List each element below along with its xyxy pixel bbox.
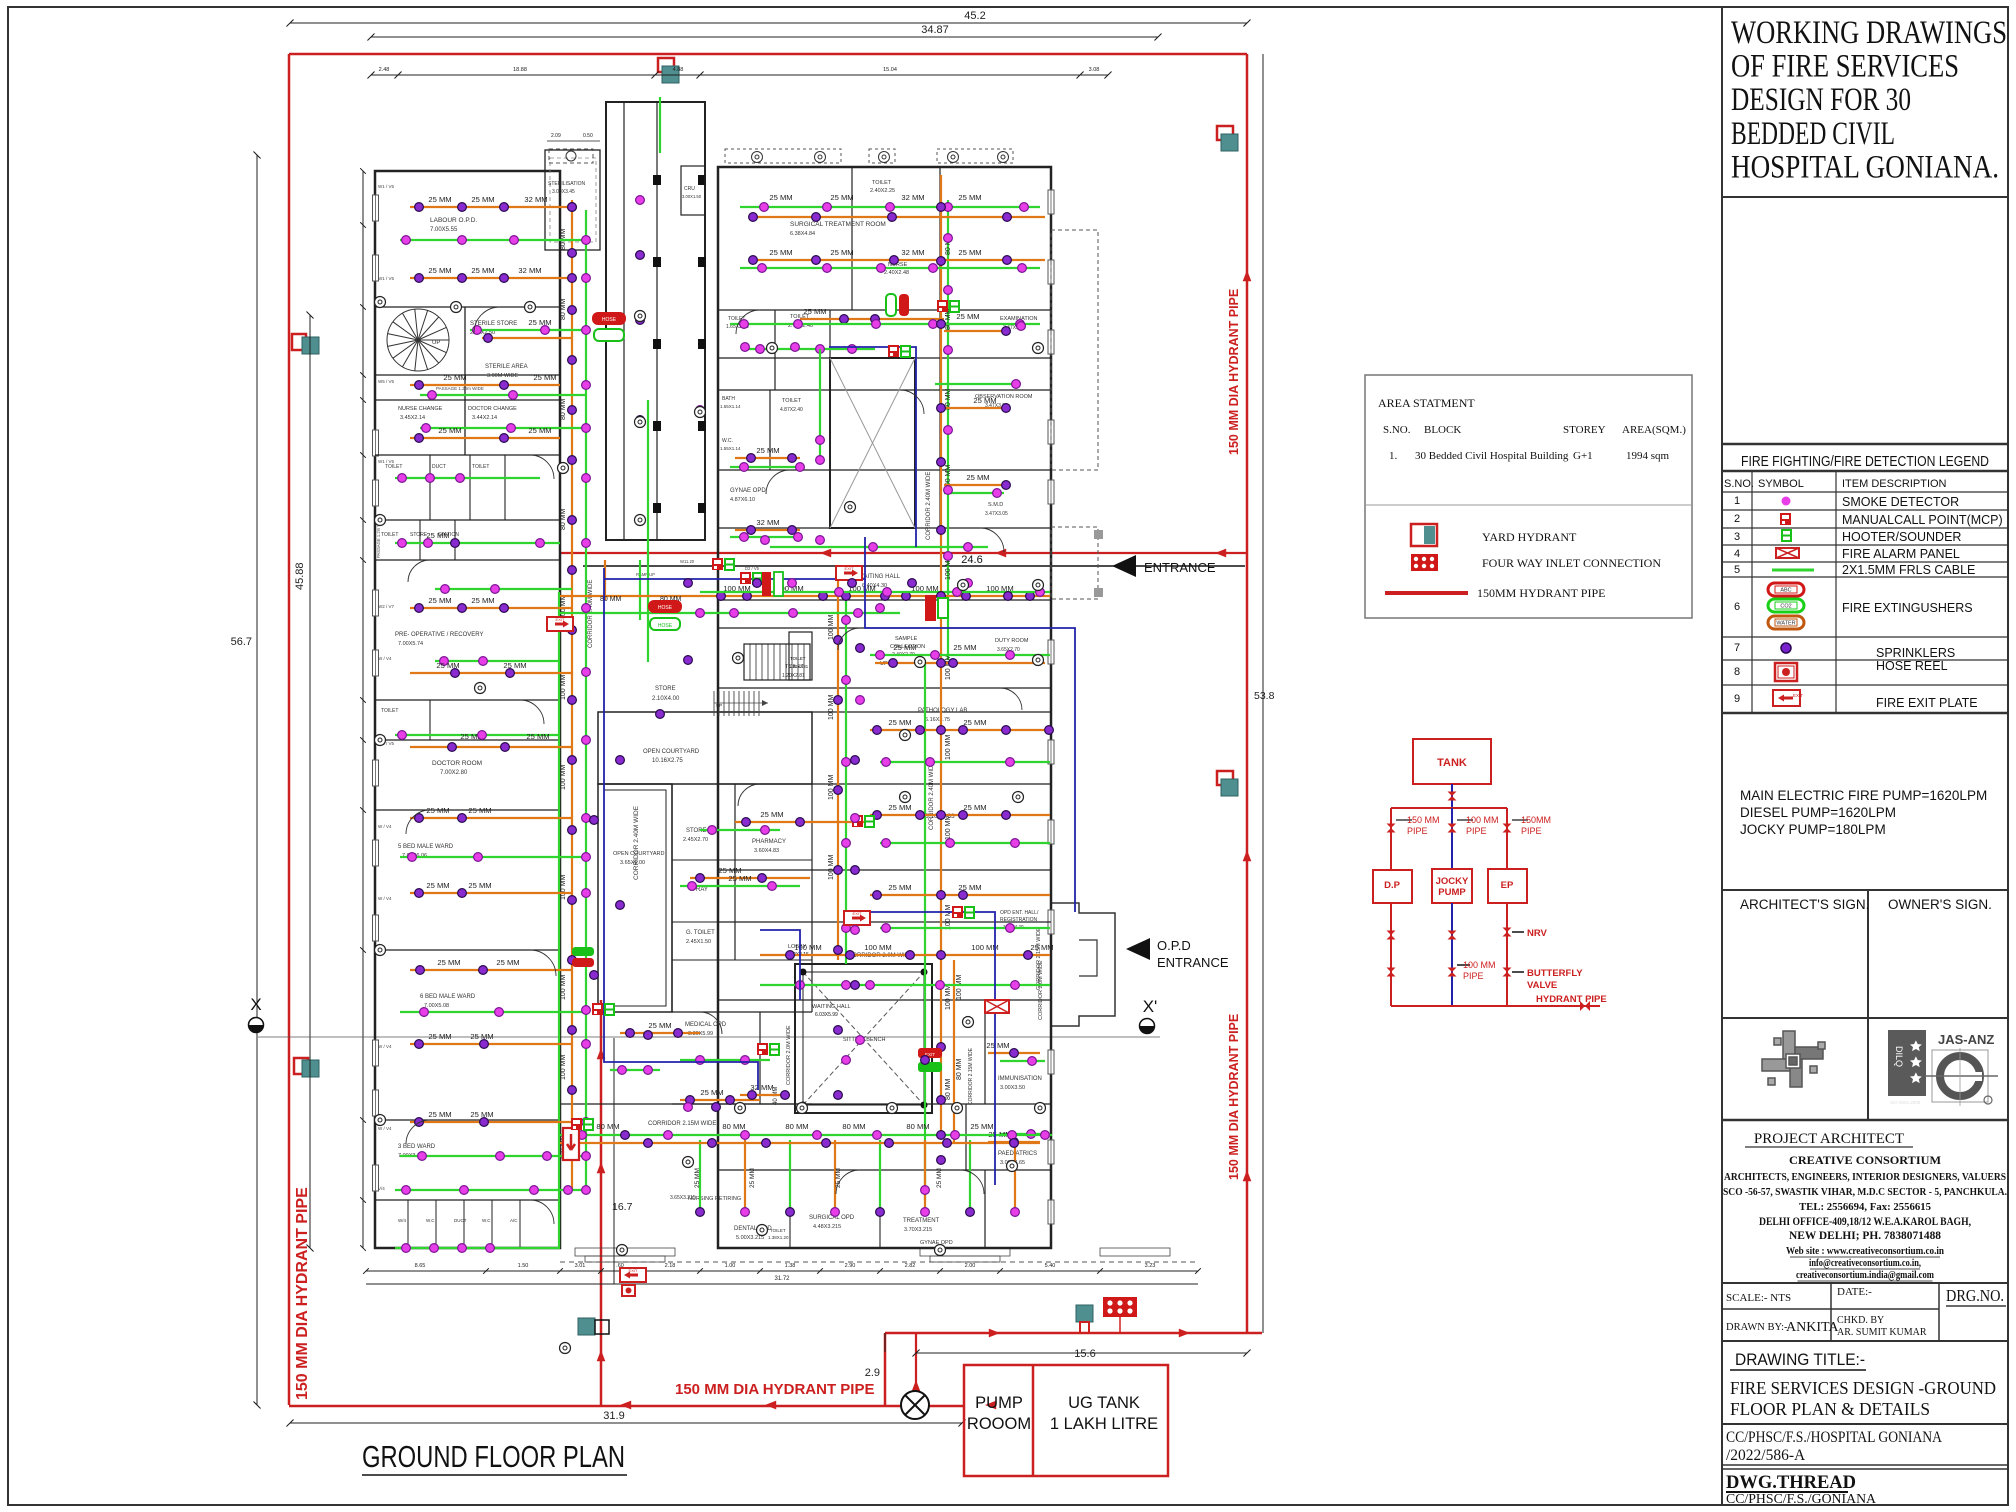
hydrant pipe loop top [289,53,1247,56]
svg-text:3.45X2.14: 3.45X2.14 [400,415,425,421]
svg-text:DWG.THREAD: DWG.THREAD [1726,1473,1856,1493]
svg-text:25 MM: 25 MM [956,312,979,321]
svg-text:16.7: 16.7 [612,1201,633,1213]
dots along corridor verticals [937,203,946,212]
svg-text:JOCKY: JOCKY [1436,876,1469,887]
MCP [888,345,899,357]
legend MCP symbol [1780,513,1791,525]
svg-text:SMOKE DETECTOR: SMOKE DETECTOR [1842,495,1959,509]
svg-text:BUTTERFLY: BUTTERFLY [1527,968,1583,979]
MCP [592,1003,603,1015]
bottom building dim rail [366,1270,1198,1272]
corridor bottom band [560,1103,718,1105]
svg-text:150 MM DIA HYDRANT PIPE: 150 MM DIA HYDRANT PIPE [675,1381,874,1398]
yard hydrant bottom center [578,1318,609,1335]
corridor vertical pipes right wing [940,175,942,1135]
sitting bench hall [795,964,932,1113]
legend extinguishers [1768,583,1804,596]
svg-text:DRAWING TITLE:-: DRAWING TITLE:- [1735,1350,1865,1369]
svg-text:GYNAE OPD: GYNAE OPD [730,488,766,494]
svg-text:W / V4: W / V4 [378,896,392,901]
right wing outer walls [718,167,1051,1248]
svg-text:TOILET: TOILET [872,180,892,186]
svg-text:W / V4: W / V4 [378,656,392,661]
svg-text:31.72: 31.72 [774,1276,790,1282]
svg-text:TEL: 2556694, Fax: 2556615: TEL: 2556694, Fax: 2556615 [1799,1201,1931,1213]
svg-text:SPRINKLERS: SPRINKLERS [1876,646,1955,660]
yard hydrant [1217,126,1238,151]
svg-text:100 MM: 100 MM [560,675,567,700]
pump EP [1488,869,1527,903]
svg-text:4.48X3.215: 4.48X3.215 [813,1224,841,1230]
window hatches left wall [373,195,379,221]
toilet cubicle wall [435,1200,437,1248]
svg-text:creativeconsortium.india@gmail: creativeconsortium.india@gmail.com [1796,1269,1934,1281]
scale/date/drgno table [1722,1282,2008,1284]
svg-text:25 MM: 25 MM [803,307,826,316]
svg-text:2.40X2.48: 2.40X2.48 [884,270,909,276]
svg-text:NURSING RETIRING: NURSING RETIRING [688,1196,741,1202]
svg-text:1.: 1. [1389,450,1398,462]
svg-text:DOCTOR ROOM: DOCTOR ROOM [432,760,482,767]
svg-text:25 MM: 25 MM [468,881,491,890]
dimension 45.2 [290,22,1247,24]
blue fire alarm loop top center [829,347,916,547]
toilet cubicle wall [407,1200,409,1248]
svg-text:DRAWN BY:-: DRAWN BY:- [1726,1322,1788,1333]
svg-text:100 MM: 100 MM [945,735,952,760]
svg-text:9: 9 [1734,693,1740,705]
yard hydrant [1217,771,1238,796]
svg-text:80 MM: 80 MM [560,508,567,530]
MCP [937,300,948,312]
svg-text:CREATIVE CONSORTIUM: CREATIVE CONSORTIUM [1789,1153,1941,1167]
pills at corridor junction [572,947,594,967]
svg-text:NEW DELHI; PH. 7838071488: NEW DELHI; PH. 7838071488 [1789,1230,1941,1242]
hooter/sounder [965,907,974,918]
svg-text:2.40X2.25: 2.40X2.25 [870,188,895,194]
svg-text:FIRE EXTINGUSHERS: FIRE EXTINGUSHERS [1842,601,1973,615]
svg-text:100 MM: 100 MM [560,875,567,900]
svg-text:HOSPITAL GONIANA.: HOSPITAL GONIANA. [1731,149,1999,185]
svg-text:1.55X1.14: 1.55X1.14 [720,446,741,451]
svg-text:80 MM: 80 MM [945,388,952,410]
lift shaft [830,358,915,528]
EP branch [1506,808,1508,869]
svg-text:3.47X3.05: 3.47X3.05 [985,511,1008,517]
hydrant pipe loop right [1246,54,1249,1333]
bottom corridor wall [718,1134,1051,1136]
toilet cubicle wall [491,1200,493,1248]
svg-text:25 MM: 25 MM [496,958,519,967]
fire exit plate [844,911,870,925]
entrance feed pipe [560,552,1247,554]
dimension 31.9 [290,1422,962,1424]
hose reel + hooter pair sterile area [648,600,682,613]
right wing verticals [851,167,853,310]
medical opd walls [672,1011,812,1013]
svg-text:25 MM: 25 MM [426,806,449,815]
svg-text:25 MM: 25 MM [966,473,989,482]
svg-text:3.00X3.50: 3.00X3.50 [1000,1085,1025,1091]
svg-text:W1 / V5: W1 / V5 [378,459,395,464]
100 MM PIPE label mid [1457,819,1473,821]
svg-text:TREATMENT: TREATMENT [903,1218,940,1224]
svg-text:STORE: STORE [655,686,676,692]
svg-text:YARD HYDRANT: YARD HYDRANT [1482,530,1577,544]
svg-text:25 MM: 25 MM [953,643,976,652]
svg-text:CC/PHSC/F.S./GONIANA: CC/PHSC/F.S./GONIANA [1726,1492,1877,1507]
svg-text:6.03X5.99: 6.03X5.99 [815,1012,838,1018]
svg-text:1.20X2.81: 1.20X2.81 [789,664,809,669]
toilet row pipes right [745,348,875,350]
svg-text:CORRIDOR 2.40M WIDE: CORRIDOR 2.40M WIDE [926,472,932,540]
svg-text:25 MM: 25 MM [728,874,751,883]
svg-text:15.04: 15.04 [883,67,897,73]
medical opd area rows [620,1032,700,1034]
svg-text:100 MM: 100 MM [1466,815,1499,825]
svg-text:W / V4: W / V4 [378,1126,392,1131]
svg-text:X: X [250,995,261,1014]
svg-text:S.NO.: S.NO. [1383,424,1411,436]
svg-text:32 MM: 32 MM [524,195,547,204]
svg-text:25 MM: 25 MM [893,643,916,652]
svg-text:MAIN ELECTRIC FIRE PUMP=1620LP: MAIN ELECTRIC FIRE PUMP=1620LPM [1740,788,1987,803]
svg-text:AREA STATMENT: AREA STATMENT [1378,396,1475,410]
DP branch [1390,808,1392,870]
svg-text:3.65X3.215: 3.65X3.215 [670,1195,696,1201]
title block divider [1721,7,1723,1505]
legend fire alarm panel symbol [1776,548,1799,558]
svg-text:80 MM: 80 MM [945,1078,952,1100]
svg-text:FIRE EXIT PLATE: FIRE EXIT PLATE [1876,696,1978,710]
svg-text:100 MM: 100 MM [956,975,963,1000]
svg-text:CORRIDOR 2.0M WIDE: CORRIDOR 2.0M WIDE [786,1025,792,1085]
svg-text:CHKD. BY: CHKD. BY [1837,1315,1884,1326]
svg-text:WATER: WATER [1776,621,1795,627]
svg-text:PASSAGE 1.20m WIDE: PASSAGE 1.20m WIDE [436,386,484,391]
svg-text:PHARMACY: PHARMACY [752,839,786,845]
svg-text:V/4: V/4 [378,1186,385,1191]
paediatrics rows [1000,1133,1045,1135]
fire alarm panel [985,1000,1009,1013]
hose reel cabinet [563,1128,579,1160]
svg-text:25 MM: 25 MM [694,1168,701,1188]
hooter/sounder [950,301,959,312]
svg-text:UG TANK: UG TANK [1068,1394,1140,1412]
pathology rows [870,729,1050,731]
svg-text:25 MM: 25 MM [528,318,551,327]
svg-text:150 MM DIA HYDRANT PIPE: 150 MM DIA HYDRANT PIPE [1227,289,1241,455]
section line X-X prime [258,1036,1160,1038]
svg-text:25 MM: 25 MM [428,1110,451,1119]
svg-text:3 BED WARD: 3 BED WARD [398,1144,436,1150]
svg-text:AR. SUMIT KUMAR: AR. SUMIT KUMAR [1837,1327,1927,1338]
svg-text:100 MM: 100 MM [828,615,835,640]
svg-text:2: 2 [1734,513,1740,525]
svg-text:25 MM: 25 MM [749,1168,756,1188]
svg-text:W5 / V5: W5 / V5 [378,379,395,384]
svg-text:3: 3 [1734,531,1740,543]
svg-text:1.38X1.20: 1.38X1.20 [768,1235,789,1240]
jocky branch [1451,808,1453,869]
svg-text:FIRE ALARM PANEL: FIRE ALARM PANEL [1842,547,1960,561]
section rail x614 [613,1038,615,1284]
pharmacy rows [735,821,868,823]
four way inlet legend symbol [1411,554,1438,571]
svg-text:DESIGN FOR 30: DESIGN FOR 30 [1731,82,1911,118]
svg-text:GYNAE OPD: GYNAE OPD [920,1240,953,1246]
svg-text:G+1: G+1 [1573,450,1593,462]
svg-text:W11.20: W11.20 [680,559,695,564]
vertical dim rail 56.7 [256,155,258,1405]
svg-text:W.C.: W.C. [722,438,733,444]
svg-text:TOILET: TOILET [381,708,398,714]
svg-text:DILQ: DILQ [1894,1046,1904,1067]
vertical dim rail left small [362,171,364,1248]
svg-text:32 MM: 32 MM [518,266,541,275]
hooter/sounder [770,1044,779,1055]
svg-text:25 MM: 25 MM [936,1168,943,1188]
svg-text:GROUND FLOOR PLAN: GROUND FLOOR PLAN [362,1439,625,1474]
svg-text:W / V4: W / V4 [378,1044,392,1049]
svg-text:7.00X5.08: 7.00X5.08 [424,1003,449,1009]
MCP [757,1043,768,1055]
svg-text:S.NO.: S.NO. [1724,478,1754,490]
svg-text:3.00M WIDE: 3.00M WIDE [487,373,519,379]
butterfly valve label [1512,971,1524,973]
dimension subdivisions top [371,74,1108,76]
svg-text:53.8: 53.8 [1254,690,1275,702]
hooter/sounder [725,559,734,570]
svg-text:3.00X3.45: 3.00X3.45 [552,189,575,195]
blue loop main left [604,568,758,1090]
svg-text:1: 1 [1734,495,1740,507]
architect/owner sign boxes [1722,889,2008,891]
svg-text:1.38: 1.38 [785,1263,796,1269]
yard hydrant legend symbol [1411,524,1437,546]
immunisation mcp cluster [0,0,1,1]
left wing interior walls [375,306,560,308]
svg-text:SYMBOL: SYMBOL [1758,478,1804,490]
dimension 34.87 [371,36,1158,38]
svg-text:3.44X2.14: 3.44X2.14 [472,415,497,421]
svg-text:CRU: CRU [684,186,695,192]
svg-text:3.08: 3.08 [1089,67,1100,73]
svg-text:6 BED MALE WARD: 6 BED MALE WARD [420,994,476,1000]
opd registration rows [760,954,1050,956]
svg-text:34.87: 34.87 [921,24,949,36]
svg-text:4: 4 [1734,548,1740,560]
svg-text:10.16X2.75: 10.16X2.75 [652,758,683,764]
inlet drop [1119,1317,1121,1333]
svg-text:STORE: STORE [410,532,428,538]
yard hydrant near pump [1076,1305,1093,1333]
svg-text:25 MM: 25 MM [503,661,526,670]
svg-text:1 LAKH LITRE: 1 LAKH LITRE [1050,1415,1158,1433]
svg-text:100 MM: 100 MM [945,905,952,930]
svg-text:25 MM: 25 MM [958,248,981,257]
svg-text:25 MM: 25 MM [428,195,451,204]
100 MM PIPE label bottom [1457,964,1470,966]
svg-text:5: 5 [1734,564,1740,576]
svg-text:RAMP UP: RAMP UP [636,572,655,577]
svg-text:NRV: NRV [1527,928,1548,939]
left bottom rows [395,1247,560,1249]
svg-text:1.00: 1.00 [725,1263,736,1269]
svg-text:REGISTRATION: REGISTRATION [1000,917,1038,923]
svg-text:G. TOILET: G. TOILET [686,930,715,936]
svg-text:WORKING DRAWINGS: WORKING DRAWINGS [1731,15,2007,51]
toilet cubicle wall [463,1200,465,1248]
svg-text:VALVE: VALVE [1527,980,1557,991]
svg-text:W2 / V7: W2 / V7 [378,604,395,609]
circled tags [375,297,386,308]
fire exit plate [547,617,573,631]
svg-text:ENTRANCE: ENTRANCE [1157,955,1229,970]
svg-text:FIRE SERVICES DESIGN -GROUND: FIRE SERVICES DESIGN -GROUND [1730,1378,1996,1398]
MCP [952,906,963,918]
bottom collector pipe [1391,1005,1507,1007]
svg-text:DUCT: DUCT [432,464,446,470]
svg-text:JOCKY PUMP=180LPM: JOCKY PUMP=180LPM [1740,822,1886,837]
hooter/sounder [605,1004,614,1015]
yard hydrant [658,58,679,83]
svg-text:UP: UP [716,703,722,708]
svg-text:MANUALCALL POINT(MCP): MANUALCALL POINT(MCP) [1842,513,2003,527]
svg-text:25 MM: 25 MM [1030,943,1053,952]
svg-text:45.88: 45.88 [294,562,306,590]
right porch dashed [1051,527,1098,599]
vertical 40MM pipes bottom rooms [699,1140,701,1212]
svg-text:O.P.D: O.P.D [1157,938,1191,953]
svg-text:PUMP: PUMP [1438,887,1466,898]
left wing outer walls [375,171,560,1248]
svg-text:TANK: TANK [1437,757,1467,769]
svg-text:3.23: 3.23 [1145,1263,1156,1269]
svg-text:25 MM: 25 MM [769,193,792,202]
sterilisation room [545,150,600,250]
stairs center block [744,644,804,680]
svg-text:25 MM: 25 MM [888,883,911,892]
svg-text:25 MM: 25 MM [835,1168,842,1188]
svg-text:2.9: 2.9 [865,1367,880,1379]
svg-text:25 MM: 25 MM [428,1032,451,1041]
svg-text:24.6: 24.6 [961,554,982,566]
svg-text:25 MM: 25 MM [963,718,986,727]
svg-text:5.00X3.215: 5.00X3.215 [736,1235,764,1241]
svg-text:STERILISATION: STERILISATION [548,181,586,187]
svg-text:HYDRANT PIPE: HYDRANT PIPE [1536,994,1607,1005]
red/green pill pair near immunisation [0,0,1,1]
MCP [740,572,751,584]
svg-text:PUMP: PUMP [975,1394,1023,1412]
svg-text:5 BED MALE WARD: 5 BED MALE WARD [398,844,454,850]
svg-text:25 MM: 25 MM [756,446,779,455]
svg-text:4.87X2.40: 4.87X2.40 [780,407,803,413]
svg-text:25 MM: 25 MM [428,266,451,275]
svg-text:BATH: BATH [722,396,735,402]
svg-text:2.48: 2.48 [379,67,390,73]
svg-text:HOSE REEL: HOSE REEL [1876,659,1948,673]
svg-text:8: 8 [1734,666,1740,678]
svg-text:STERILE AREA: STERILE AREA [485,364,528,370]
architect logo (pixel cross) [1762,1031,1825,1087]
vertical dim rail right 53.8 [1262,54,1264,1333]
MCP [852,815,863,827]
svg-text:80 MM: 80 MM [596,1122,619,1131]
four way inlet connection [1103,1297,1137,1317]
6.16x4.83 rows [870,814,1050,816]
svg-text:TOILET: TOILET [381,532,398,538]
svg-text:DRG.NO.: DRG.NO. [1946,1286,2004,1305]
svg-text:25 MM: 25 MM [426,881,449,890]
svg-text:25 MM: 25 MM [533,373,556,382]
svg-text:7: 7 [1734,642,1740,654]
svg-text:25 MM: 25 MM [769,248,792,257]
dimension 15.6 [916,1352,1247,1354]
svg-text:DUCT: DUCT [454,1218,467,1223]
opd entrance porch [1051,903,1115,1026]
svg-text:25 MM: 25 MM [437,958,460,967]
svg-text:6.16X2.75: 6.16X2.75 [925,717,950,723]
svg-text:25 MM: 25 MM [830,193,853,202]
svg-text:W1 / V5: W1 / V5 [378,276,395,281]
svg-text:25 MM: 25 MM [648,1021,671,1030]
svg-text:6: 6 [1734,601,1740,613]
JAS-ANZ logo [1888,1030,1998,1106]
svg-text:OPEN COURTYARD: OPEN COURTYARD [643,749,700,755]
svg-text:DIESEL PUMP=1620LPM: DIESEL PUMP=1620LPM [1740,805,1896,820]
entrance axis line [583,565,1245,567]
svg-text:25 MM: 25 MM [986,1041,1009,1050]
hydrant riser from building [600,1000,603,1405]
svg-text:TOILET: TOILET [770,1228,786,1233]
header pipe [1391,807,1507,809]
svg-text:D.P: D.P [1384,880,1401,891]
svg-text:2.90: 2.90 [845,1263,856,1269]
svg-text:JAS-ANZ: JAS-ANZ [1938,1032,1994,1047]
svg-text:32 MM: 32 MM [901,248,924,257]
svg-text:25 MM: 25 MM [963,803,986,812]
hydrant pipe bottom (to pump room) [289,1405,963,1408]
svg-text:15.6: 15.6 [1074,1348,1095,1360]
svg-text:25 MM: 25 MM [760,810,783,819]
svg-text:ARCHITECTS, ENGINEERS, INTERIO: ARCHITECTS, ENGINEERS, INTERIOR DESIGNER… [1724,1171,2006,1183]
svg-text:150MM: 150MM [1521,815,1551,825]
svg-text:ENTRANCE: ENTRANCE [1144,560,1216,575]
svg-text:25 MM: 25 MM [471,266,494,275]
svg-text:ISO 9001:2000: ISO 9001:2000 [1890,1100,1921,1105]
vertical dim rail 45.88 [309,315,311,1248]
svg-text:25 MM: 25 MM [468,806,491,815]
door arcs [474,307,500,333]
svg-text:18.88: 18.88 [513,67,527,73]
svg-text:UP: UP [432,340,440,346]
svg-text:LABOUR O.P.D.: LABOUR O.P.D. [430,217,477,224]
svg-text:PROJECT ARCHITECT: PROJECT ARCHITECT [1754,1131,1904,1147]
NRV label [1512,931,1524,933]
svg-text:DELHI OFFICE-409,18/12 W.E.A.K: DELHI OFFICE-409,18/12 W.E.A.KAROL BAGH, [1759,1216,1971,1228]
svg-text:OWNER'S SIGN.: OWNER'S SIGN. [1888,897,1992,912]
top porch dashed left [549,149,593,163]
left wing vertical dividers [464,307,466,400]
svg-text:AREA(SQM.): AREA(SQM.) [1622,424,1686,436]
svg-text:W.C: W.C [426,1218,435,1223]
svg-text:S.M.D: S.M.D [988,502,1003,508]
svg-text:2.09: 2.09 [551,133,561,139]
pump connection riser [915,1333,917,1405]
